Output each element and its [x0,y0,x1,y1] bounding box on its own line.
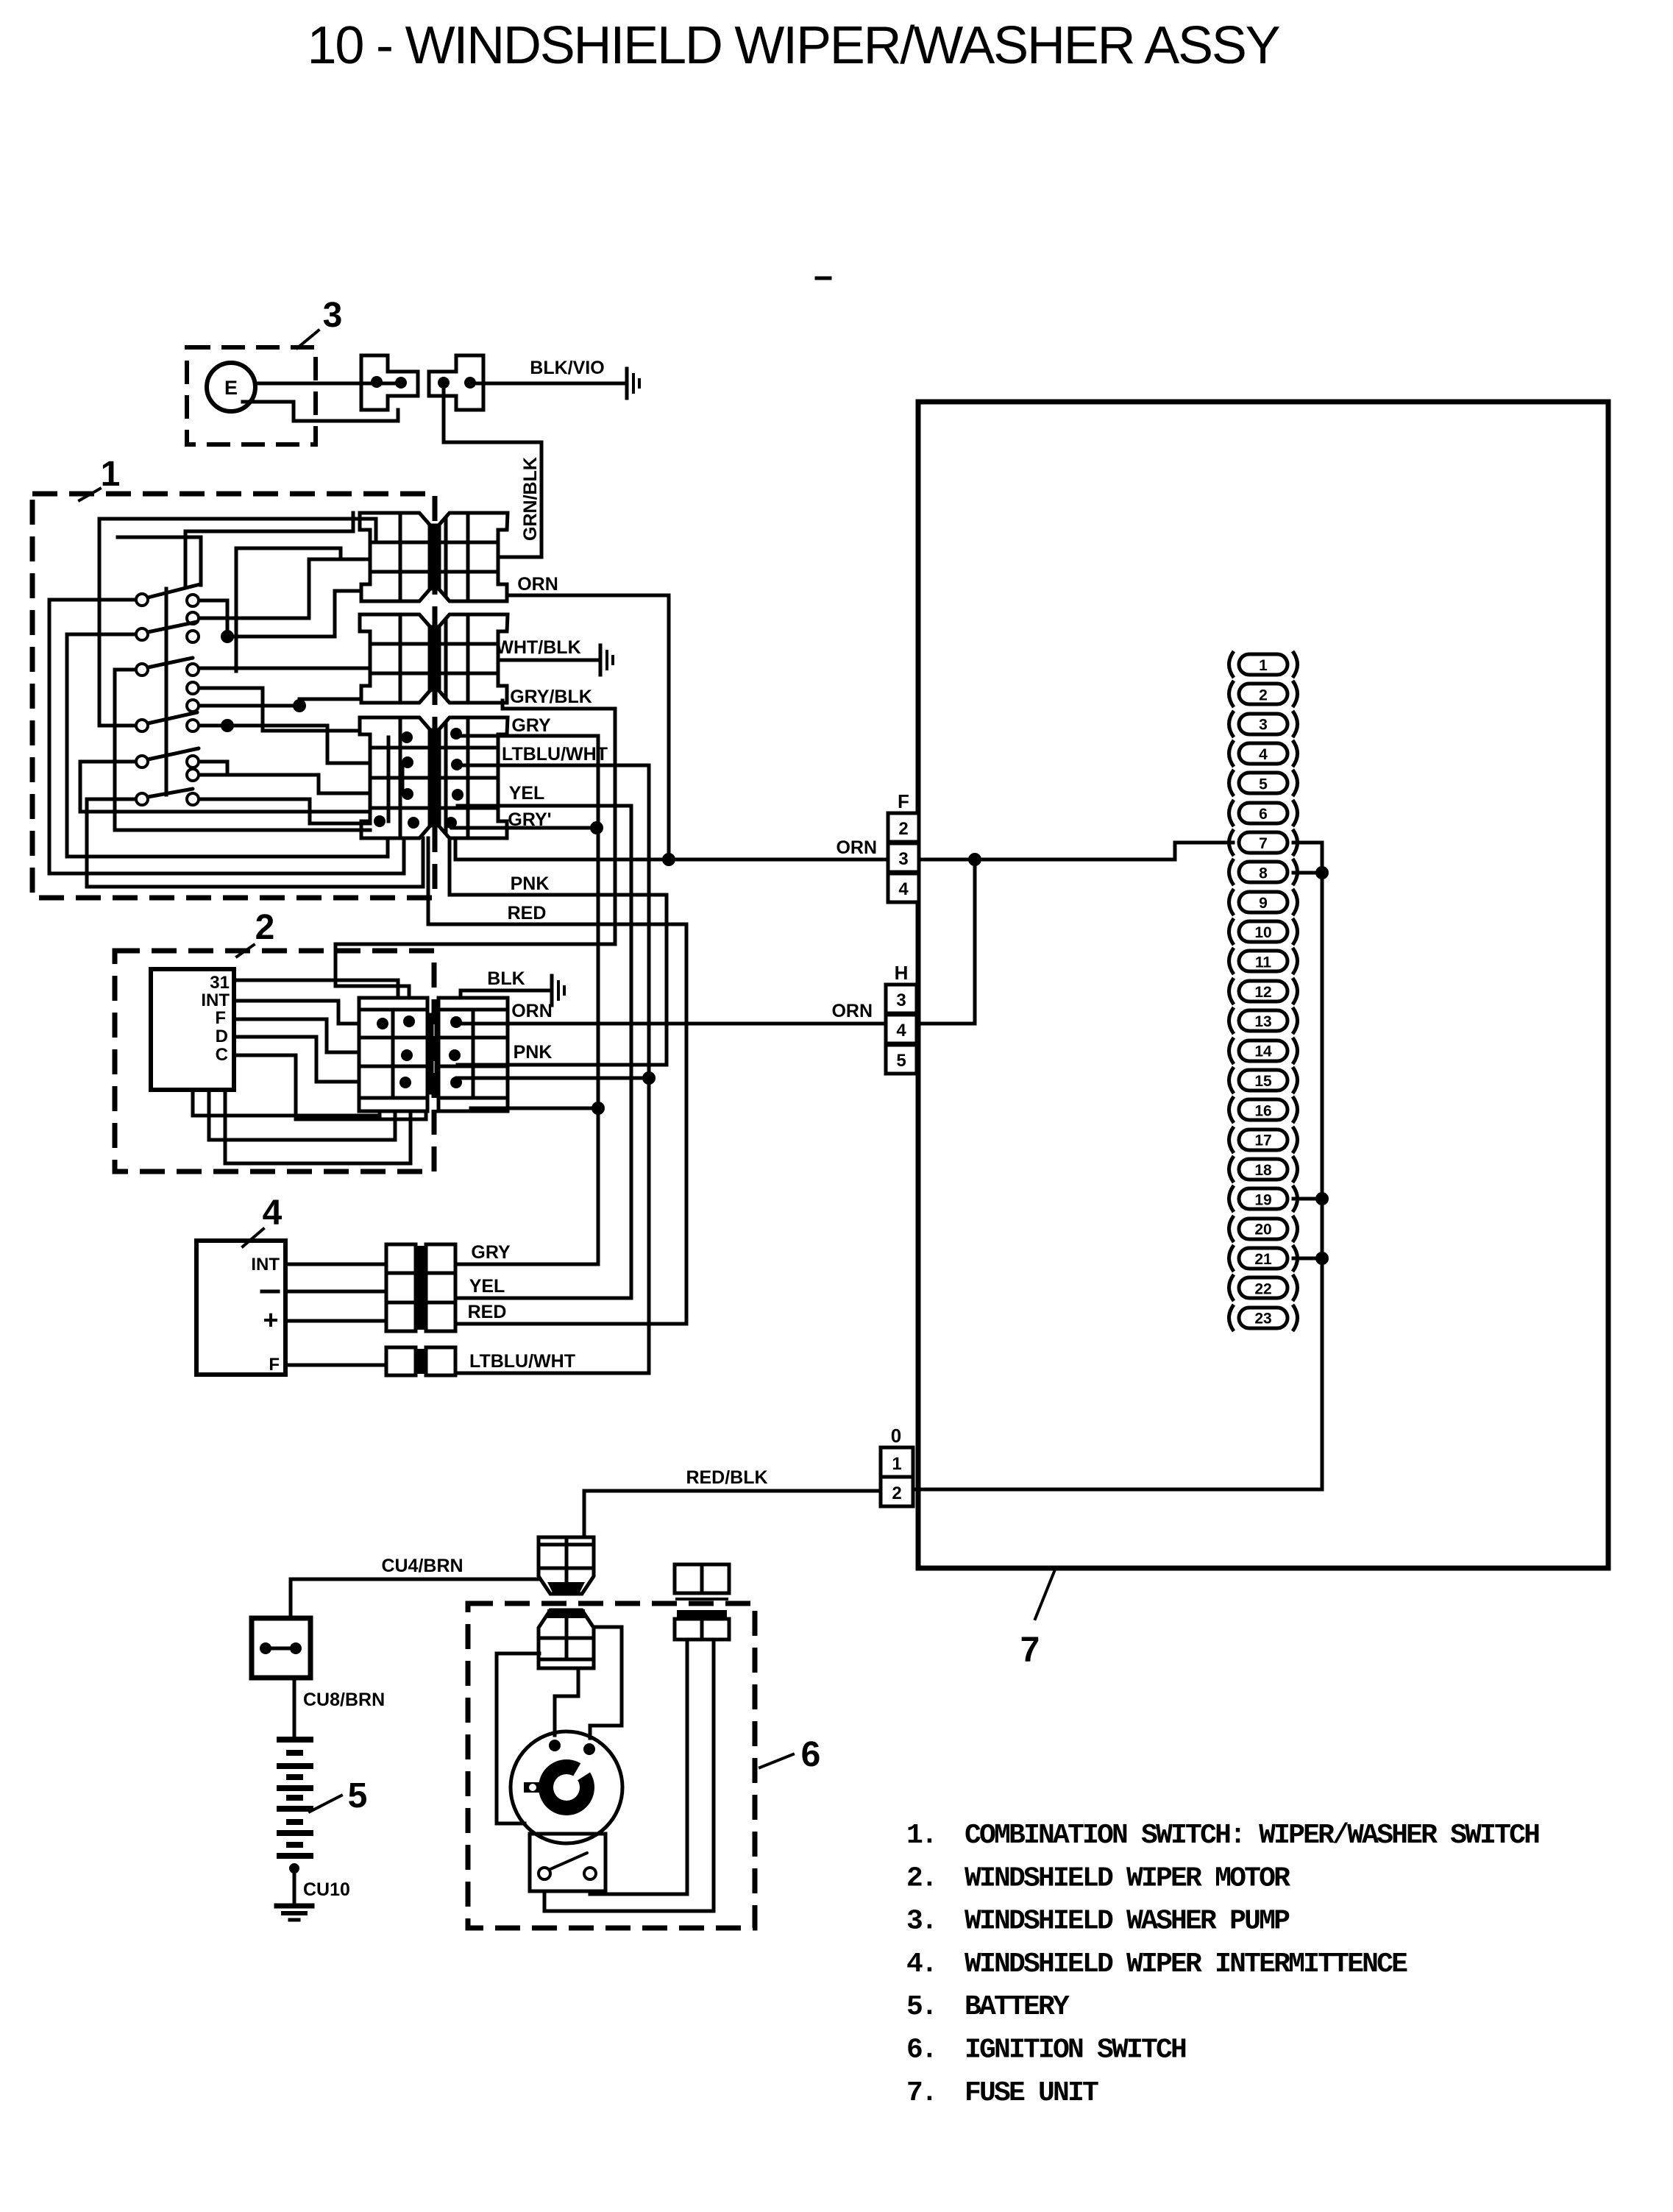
wire GRY* joining GRY [452,826,596,830]
svg-text:D: D [216,1027,228,1046]
svg-text:3: 3 [1259,717,1268,734]
wire WHT/BLK [498,659,598,662]
svg-text:INT: INT [251,1255,280,1275]
svg-text:YEL: YEL [469,1276,505,1297]
wire term 31 [234,980,398,998]
wire term F [234,1019,359,1052]
svg-text:4: 4 [896,1021,906,1041]
svg-text:GRY': GRY' [508,809,551,830]
fuse 23 [1239,1308,1287,1328]
ignition connector right upper [675,1564,729,1593]
wire GRY/BLK (to wiper motor connector) [335,701,615,998]
svg-text:WINDSHIELD WIPER MOTOR: WINDSHIELD WIPER MOTOR [965,1862,1290,1894]
svg-text:FUSE UNIT: FUSE UNIT [965,2077,1098,2109]
pins motor connector [377,1018,388,1029]
wire fuse 19 tap [1293,1197,1322,1201]
svg-text:4: 4 [1259,746,1268,763]
wire loop pivot l6 [87,799,423,887]
svg-text:19: 19 [1254,1191,1271,1208]
svg-text:4: 4 [898,879,909,899]
fuse 18 [1239,1159,1287,1180]
svg-text:2: 2 [892,1483,901,1503]
ignition switch 6 (dashed enclosure) [468,1603,755,1928]
wire ignition e [590,1639,687,1894]
svg-text:13: 13 [1254,1013,1271,1030]
svg-text:2: 2 [1259,687,1268,703]
wire RED to intermittence [455,1322,686,1326]
svg-text:YEL: YEL [509,783,545,804]
wire ignition c [590,1627,622,1738]
wire loop pivot l3 [115,670,370,830]
svg-text:PNK: PNK [511,873,550,894]
svg-text:ORN: ORN [511,1001,553,1021]
svg-text:10 - WINDSHIELD WIPER/WASHER A: 10 - WINDSHIELD WIPER/WASHER ASSY [308,16,1280,75]
wire fuse bottom run to connector O2 [913,1488,1322,1492]
svg-text:RED: RED [508,903,547,924]
svg-text:CU8/BRN: CU8/BRN [303,1690,385,1710]
svg-text:23: 23 [1254,1311,1271,1327]
combination switch 1 (dashed enclosure) [32,494,435,898]
svg-text:INT: INT [201,990,230,1010]
svg-text:6.: 6. [906,2035,936,2066]
switch contacts: fixed circles right column [187,595,199,606]
wire motor loop 1 [193,1090,380,1116]
motor block [151,969,234,1090]
svg-text:LTBLU/WHT: LTBLU/WHT [469,1351,575,1372]
wire top nest c [118,537,201,585]
svg-text:2: 2 [255,908,275,947]
svg-text:31: 31 [210,973,230,993]
svg-text:COMBINATION SWITCH: WIPER/WASH: COMBINATION SWITCH: WIPER/WASHER SWITCH [965,1820,1539,1851]
fuse 12 [1239,981,1287,1002]
svg-text:6: 6 [801,1735,821,1774]
connector plug left (washer) [361,355,418,410]
svg-text:17: 17 [1254,1132,1271,1149]
svg-text:LTBLU/WHT: LTBLU/WHT [502,744,608,765]
wire PNK [450,838,667,1065]
ignition contact box [530,1834,605,1891]
wire loop pivot l1 [49,600,404,873]
svg-text:CU10: CU10 [303,1879,350,1900]
svg-text:5: 5 [348,1776,368,1815]
wire motor loop 2 [209,1090,395,1140]
wire contact r5 to conn C row1 [199,688,360,731]
wire motor to LTBLU/WHT [457,1077,649,1080]
wire GRY to intermittence [455,1263,598,1266]
svg-text:0: 0 [891,1425,901,1447]
fuse 8 [1239,862,1287,882]
wire RED [428,838,686,1324]
svg-text:10: 10 [1254,924,1271,941]
ignition connector right lower [677,1610,727,1619]
svg-text:BLK/VIO: BLK/VIO [530,358,604,378]
wire CU8/BRN [293,1678,296,1740]
wire LTBLU/WHT to intermittence [455,1372,649,1375]
switch link bar [165,589,168,795]
wire CU4/BRN drop [289,1579,293,1618]
wire contact r4 to conn B recess [199,667,370,670]
wire term D [234,1037,359,1082]
wire term INT [234,1001,359,1024]
wire RED/BLK [584,1491,881,1537]
wire fuse 21 tap [1293,1257,1322,1261]
svg-text:5: 5 [896,1051,906,1071]
wire contact r6 to conn B lower stub [199,699,361,706]
wire contact r9 to conn C row3 [199,775,370,793]
svg-text:F: F [269,1355,280,1375]
svg-text:3.: 3. [906,1906,936,1938]
ground (WHT/BLK) [599,645,603,675]
svg-text:21: 21 [1254,1251,1272,1268]
wire BLK [461,990,550,998]
svg-text:C: C [216,1045,228,1065]
svg-text:3: 3 [323,296,343,335]
svg-text:H: H [895,962,909,984]
svg-text:WINDSHIELD WASHER PUMP: WINDSHIELD WASHER PUMP [965,1906,1290,1938]
fuse 14 [1239,1041,1287,1061]
svg-text:+: + [263,1305,278,1335]
wire contact r1 to r3 [199,600,227,637]
intermittence connector upper [386,1244,416,1331]
wire fuse 8 tap [1293,871,1322,875]
wire battery to ground [289,1863,299,1874]
svg-text:F: F [898,790,909,812]
svg-text:14: 14 [1254,1043,1272,1060]
battery feed switch box [252,1618,310,1678]
ground (BLK wiper motor) [550,976,554,1005]
ground (battery) [277,1904,312,1909]
fuse 3 [1239,714,1287,734]
svg-text:GRY/BLK: GRY/BLK [510,687,592,707]
svg-text:11: 11 [1255,954,1272,971]
wire contact r3 to conn A lower stub [227,591,361,637]
wire ignition d [544,1639,714,1911]
svg-text:ORN: ORN [831,1001,873,1021]
pump motor E [207,363,255,411]
fuse 13 [1239,1010,1287,1031]
svg-text:GRN/BLK: GRN/BLK [520,457,541,541]
wire LTBLU/WHT [455,765,649,1373]
wire inside connector C [387,737,391,821]
wire YEL [455,806,631,1298]
fuse 20 [1239,1219,1287,1239]
fuse 15 [1239,1070,1287,1091]
wire pump lower loop [243,402,398,421]
svg-text:RED/BLK: RED/BLK [686,1467,767,1488]
motor connector mating faces [429,1015,434,1092]
svg-text:RED: RED [468,1302,507,1322]
pins connector C [401,731,413,743]
harness connector upper (bell) [539,1537,594,1594]
wire YEL to intermittence [455,1297,631,1300]
wire contact r8 join r9 [199,762,227,775]
switch levers [148,584,200,598]
fuse 16 [1239,1099,1287,1120]
fuse 19 [1239,1188,1287,1209]
wire ORN (pair A) [510,595,669,859]
windshield wiper motor 2 (dashed enclosure) [115,951,434,1171]
svg-text:GRY: GRY [511,715,551,736]
svg-text:3: 3 [898,849,908,869]
svg-text:BATTERY: BATTERY [965,1991,1070,2023]
wire contact r7 to conn C row2 [199,726,370,763]
wire top nest a [185,513,353,585]
junction [221,719,234,732]
svg-text:18: 18 [1254,1162,1272,1179]
motor connector left half [359,998,427,1010]
connector pair A left half [360,513,430,601]
svg-text:3: 3 [896,990,906,1010]
fuse 6 [1239,803,1287,823]
wire ignition b [555,1668,578,1735]
svg-text:1: 1 [101,455,121,494]
svg-text:IGNITION SWITCH: IGNITION SWITCH [965,2035,1186,2066]
svg-text:7: 7 [1020,1631,1040,1670]
svg-text:20: 20 [1254,1222,1271,1238]
fuse unit 7 (enclosure) [918,402,1608,1568]
wire GRY [455,736,598,1264]
connector plug right (washer) [429,355,483,410]
stray mark [817,277,830,280]
wire ORN branch to connector H4 [917,859,975,1024]
fuse 22 [1239,1277,1287,1298]
ground (washer pump) [625,369,629,398]
wire motor to GRY [471,1107,598,1110]
wire term C loop [234,1055,426,1119]
svg-text:CU4/BRN: CU4/BRN [381,1556,463,1576]
fuse 11 [1239,951,1287,971]
fuse 1 [1239,654,1287,675]
wire GRN/BLK [444,389,541,557]
svg-text:2: 2 [898,819,908,839]
svg-text:5: 5 [1259,776,1268,793]
fuse 9 [1239,892,1287,912]
svg-text:1.: 1. [906,1820,936,1851]
fuse 7 [1239,832,1287,853]
wires intermittence left side [285,1263,386,1266]
pins washer connector [371,376,383,388]
svg-text:E: E [224,377,238,399]
wire ORN main run to fuse F3 and fuse 7 [455,838,1233,859]
wire loop pivot l5 [80,762,370,812]
ignition connector lower (bell) [547,1609,585,1618]
wire ignition a [497,1653,539,1823]
wire top nest b [236,548,341,671]
terminal minus [262,1290,278,1294]
wire motor loop 3 [225,1090,411,1163]
svg-text:2.: 2. [906,1862,936,1894]
wire fuse 7 output [1293,843,1322,1489]
svg-text:PNK: PNK [514,1042,553,1063]
svg-text:4: 4 [263,1194,283,1233]
switch contacts: pivot circles left column [136,594,148,606]
wire contact r2 to conn A recess [199,559,370,618]
svg-text:16: 16 [1254,1102,1271,1119]
wire pump to connector [255,382,401,386]
svg-text:22: 22 [1254,1280,1271,1297]
motor connector right half [438,998,508,1010]
fuse 4 [1239,743,1287,764]
svg-text:7.: 7. [906,2077,936,2109]
ignition switch rotor [511,1731,622,1843]
battery 5 [280,1737,310,1743]
wire CU4/BRN [291,1578,539,1581]
wiper intermittence 4 [196,1241,285,1375]
intermittence connector lower [386,1347,416,1375]
svg-text:1: 1 [892,1454,901,1474]
svg-text:15: 15 [1254,1073,1272,1090]
svg-text:9: 9 [1259,895,1268,912]
svg-text:5.: 5. [906,1991,936,2023]
fuse 17 [1239,1130,1287,1150]
wire contact r10 to conn C row4 [199,799,370,823]
fuse 10 [1239,921,1287,942]
svg-text:7: 7 [1259,835,1268,852]
svg-text:BLK: BLK [487,968,525,989]
svg-text:1: 1 [1259,657,1268,674]
junction ORN [662,853,675,866]
svg-text:6: 6 [1259,806,1268,823]
svg-text:8: 8 [1259,865,1268,882]
svg-text:WINDSHIELD WIPER INTERMITTENCE: WINDSHIELD WIPER INTERMITTENCE [965,1949,1407,1980]
connector pair B left half [360,614,430,703]
connector pair B right half [439,614,508,703]
junction [293,699,306,712]
svg-text:WHT/BLK: WHT/BLK [496,637,580,658]
fuse 2 [1239,684,1287,704]
connector pair A right half [439,513,508,601]
connector pair C right half [439,717,508,838]
svg-text:4.: 4. [906,1949,936,1980]
svg-text:F: F [215,1008,226,1028]
fuse 5 [1239,773,1287,793]
wire loop pivot l2 [67,634,388,857]
fuse 21 [1239,1248,1287,1269]
mating shade [547,1582,585,1595]
junction [221,630,234,643]
svg-text:GRY: GRY [471,1242,511,1263]
windshield washer pump 3 (dashed enclosure) [187,347,316,444]
connector pair C left half [360,717,430,838]
wire pivot l4 from top nest [99,519,376,726]
svg-text:12: 12 [1254,984,1271,1001]
svg-text:ORN: ORN [517,574,558,595]
svg-text:ORN: ORN [836,837,877,858]
wire ORN (motor to H4) [457,1022,886,1026]
wire BLK/VIO [470,382,627,386]
